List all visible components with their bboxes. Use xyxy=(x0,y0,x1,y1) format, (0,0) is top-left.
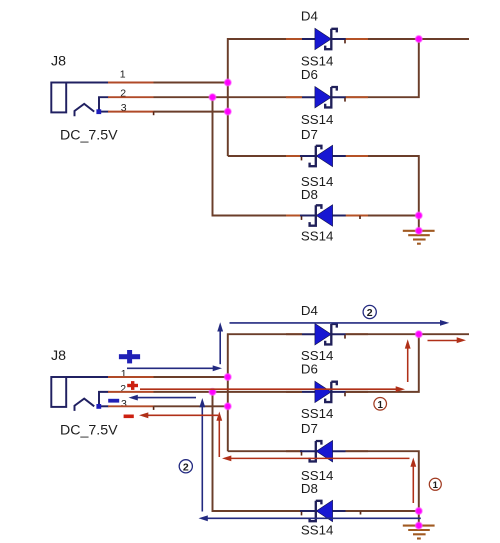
circled 2 (top) xyxy=(363,305,376,319)
svg-text:D4: D4 xyxy=(301,303,318,318)
wire pin1 to node (lower) xyxy=(154,376,228,378)
ground symbol (lower) xyxy=(403,526,435,539)
svg-text:SS14: SS14 xyxy=(301,112,334,127)
svg-text:2: 2 xyxy=(183,462,189,474)
wire D8 out xyxy=(345,215,419,217)
pin3 end tick xyxy=(153,112,155,116)
jack contact square xyxy=(96,109,101,114)
wire D7 out down to D8 out xyxy=(345,156,419,216)
junction dot pin3 (lower) xyxy=(225,403,232,410)
svg-text:D6: D6 xyxy=(301,362,318,377)
diode D8 SS14 (points left) xyxy=(300,205,346,226)
minus symbol (red, below pin3) xyxy=(124,415,134,419)
D8 anode pin end tick xyxy=(359,216,361,219)
diode D4 SS14 (lower) xyxy=(302,324,346,345)
wire D7 out down to D8 out (lower) xyxy=(345,451,419,511)
wire vertical node1 (D4 feed / pin1 / pin3 / D7 feed) xyxy=(228,39,302,156)
flow arrow red up at x=413.3 xyxy=(410,458,416,504)
jack switch link pin2-pin3 (lower) xyxy=(99,392,109,406)
wire D4 out to output (lower) xyxy=(345,333,469,335)
junction dot pin2 xyxy=(209,94,216,101)
ground symbol xyxy=(403,231,435,244)
wire D4 out to output xyxy=(345,38,469,40)
diode D8 SS14 (lower, points left) xyxy=(300,500,346,521)
wire pin2 to D6 xyxy=(154,96,303,98)
wire pin2 orange segment (lower) xyxy=(108,391,154,393)
junction dot pin1 xyxy=(225,79,232,86)
jack switch link pin2-pin3 xyxy=(99,97,109,111)
flow arrow red left below D7 xyxy=(222,456,410,462)
svg-text:D8: D8 xyxy=(301,481,318,496)
flow arrow red up at x=219.3 xyxy=(216,412,222,458)
wire D7 feed horizontal xyxy=(228,155,302,157)
svg-text:1: 1 xyxy=(377,400,383,411)
wire pin1 orange segment (lower) xyxy=(108,376,154,378)
connector J8 (DC jack, lower) xyxy=(51,377,108,411)
wire vertical node2 (pin2 to D8 feed) xyxy=(213,97,301,215)
svg-text:D4: D4 xyxy=(301,9,318,24)
flow arrow red left below pin3 xyxy=(139,412,218,418)
wire pin3 orange segment (lower) xyxy=(108,405,154,407)
wire pin1 to node xyxy=(154,82,228,84)
flow arrow red up at x=407.7 xyxy=(405,339,411,382)
svg-text:SS14: SS14 xyxy=(301,406,334,421)
svg-text:J8: J8 xyxy=(51,348,66,364)
flow arrow blue left below D8 out xyxy=(199,515,421,521)
svg-text:1: 1 xyxy=(120,69,126,81)
pin 3 stub xyxy=(97,111,109,113)
diode D4 SS14 xyxy=(302,28,346,49)
svg-text:SS14: SS14 xyxy=(301,523,334,538)
pin 1 stub (lower) xyxy=(66,376,108,378)
svg-text:D8: D8 xyxy=(301,187,318,202)
svg-text:DC_7.5V: DC_7.5V xyxy=(60,423,118,439)
junction dot output xyxy=(416,36,423,43)
wire D8 out (lower) xyxy=(345,510,419,512)
wire D7 feed horizontal (lower) xyxy=(228,450,302,452)
wire pin3 to node xyxy=(154,111,228,113)
flow arrow blue right top above D4 out xyxy=(230,320,450,326)
svg-text:D6: D6 xyxy=(301,67,318,82)
minus symbol (blue, at pin3) xyxy=(108,399,119,403)
D8 anode pin end tick (lower) xyxy=(360,511,362,514)
wire orange transition segments near diode pins xyxy=(286,39,368,511)
plus symbol (red, at pin2) xyxy=(127,381,138,390)
flow arrow blue left above pin3 xyxy=(129,395,197,401)
wire ground stem (lower) xyxy=(418,511,420,526)
circled 1 (right, ground loop) xyxy=(429,478,441,491)
pin 3 stub (lower) xyxy=(97,405,109,407)
junction dot ground (lower) xyxy=(416,522,423,529)
junction dot output (lower) xyxy=(416,331,423,338)
wire pin2 orange segment xyxy=(108,96,154,98)
pin 1 stub xyxy=(66,82,108,84)
jack spring contact xyxy=(75,104,95,116)
flow arrow blue up at x=220 xyxy=(217,322,223,364)
wire ground stem xyxy=(418,216,420,231)
svg-text:3: 3 xyxy=(121,398,127,410)
svg-text:D7: D7 xyxy=(301,127,318,142)
svg-text:J8: J8 xyxy=(51,53,66,69)
circled 2 (left) xyxy=(179,460,192,474)
flow arrow red right at output xyxy=(428,337,467,343)
diode D7 SS14 (points left) xyxy=(300,145,346,166)
junction dot pin3 xyxy=(225,108,232,115)
junction dot D8 out (lower) xyxy=(416,508,423,515)
diode D6 SS14 (lower) xyxy=(302,381,346,402)
wire D6 out up to D4 out xyxy=(345,39,419,97)
flow arrow blue up at x=202 xyxy=(199,398,205,512)
junction dot ground xyxy=(416,228,423,235)
circled 1 (near D6) xyxy=(374,398,387,411)
diode D7 SS14 (lower, points left) xyxy=(300,441,346,462)
wire vertical node1 (lower) xyxy=(228,334,302,451)
junction dot D8 out xyxy=(416,212,423,219)
wire pin3 orange segment xyxy=(108,111,154,113)
wire vertical node2 (lower) xyxy=(213,392,301,511)
jack contact square (lower) xyxy=(96,404,101,409)
connector J8 (DC jack) xyxy=(51,83,108,117)
flow arrow red right above pin2 to D6 xyxy=(140,386,405,392)
wire pin3 to node (lower) xyxy=(154,405,228,407)
jack spring contact (lower) xyxy=(75,399,95,411)
wire D6 out up to D4 out (lower) xyxy=(345,334,419,392)
junction dot pin2 (lower) xyxy=(209,389,216,396)
junction dot pin1 (lower) xyxy=(225,374,232,381)
svg-text:D7: D7 xyxy=(301,421,318,436)
svg-text:2: 2 xyxy=(120,383,126,395)
wire pin1 orange segment xyxy=(108,82,154,84)
flow arrow blue right above pin1 xyxy=(127,365,222,371)
plus symbol (blue, at pin1) xyxy=(119,350,140,363)
pin3 end tick (lower) xyxy=(153,406,155,410)
svg-text:1: 1 xyxy=(121,368,127,380)
svg-text:2: 2 xyxy=(367,307,373,319)
svg-text:SS14: SS14 xyxy=(301,228,334,243)
diode D6 SS14 xyxy=(302,87,346,108)
wire pin2 to D6 (lower) xyxy=(154,391,303,393)
svg-text:1: 1 xyxy=(433,480,439,491)
svg-text:DC_7.5V: DC_7.5V xyxy=(60,128,118,144)
